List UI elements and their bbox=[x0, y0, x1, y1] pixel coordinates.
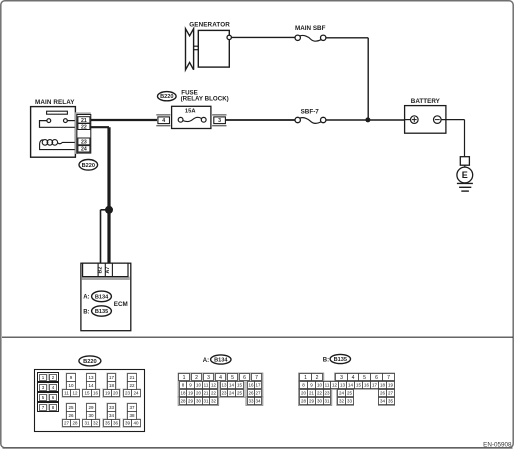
svg-text:19: 19 bbox=[105, 391, 111, 396]
svg-text:18: 18 bbox=[109, 383, 115, 388]
svg-text:29: 29 bbox=[88, 405, 94, 410]
relay pin 24 bbox=[78, 146, 90, 153]
svg-text:(RELAY BLOCK): (RELAY BLOCK) bbox=[181, 96, 229, 103]
svg-text:24: 24 bbox=[133, 391, 139, 396]
ground E bbox=[457, 157, 473, 191]
wire branch to ECM pin B2 bbox=[101, 210, 110, 263]
svg-text:27: 27 bbox=[64, 421, 70, 426]
connector view B135 bbox=[299, 373, 395, 406]
svg-text:14: 14 bbox=[348, 383, 354, 388]
svg-text:25: 25 bbox=[237, 391, 243, 396]
svg-text:25: 25 bbox=[347, 391, 353, 396]
svg-text:B134: B134 bbox=[214, 358, 228, 364]
wire generator to MAIN SBF bbox=[231, 36, 295, 38]
svg-text:4: 4 bbox=[219, 375, 222, 381]
svg-text:21: 21 bbox=[203, 391, 209, 396]
fuse MAIN SBF bbox=[295, 25, 326, 41]
relay pin 22 bbox=[78, 124, 90, 131]
svg-text:20: 20 bbox=[113, 391, 119, 396]
svg-text:18: 18 bbox=[180, 391, 186, 396]
svg-text:10: 10 bbox=[317, 383, 323, 388]
svg-text:EN-05908: EN-05908 bbox=[483, 441, 512, 448]
svg-text:11: 11 bbox=[204, 383, 209, 388]
svg-text:14: 14 bbox=[229, 383, 235, 388]
svg-text:21: 21 bbox=[129, 375, 135, 380]
svg-text:B135: B135 bbox=[95, 309, 108, 315]
ECM pin A7 bbox=[105, 267, 111, 274]
svg-text:B220: B220 bbox=[83, 359, 97, 365]
svg-text:32: 32 bbox=[211, 399, 217, 404]
svg-text:A7: A7 bbox=[105, 267, 111, 274]
generator GENERATOR bbox=[186, 21, 231, 69]
wire relay pin 22 down to ECM bbox=[90, 127, 109, 263]
connector view B220 label bbox=[79, 356, 101, 366]
fuse SBF-7 bbox=[295, 108, 326, 123]
relay contact bar bbox=[47, 111, 68, 114]
svg-text:27: 27 bbox=[255, 391, 261, 396]
svg-text:30: 30 bbox=[317, 399, 323, 404]
svg-text:27: 27 bbox=[388, 391, 394, 396]
svg-text:MAIN SBF: MAIN SBF bbox=[295, 25, 326, 32]
svg-text:16: 16 bbox=[248, 383, 254, 388]
svg-text:22: 22 bbox=[81, 125, 87, 131]
svg-text:35: 35 bbox=[105, 421, 111, 426]
svg-text:1: 1 bbox=[304, 375, 307, 381]
svg-text:A:: A: bbox=[83, 295, 89, 301]
svg-text:25: 25 bbox=[68, 405, 74, 410]
battery bbox=[405, 98, 446, 133]
ECM connector strip bbox=[82, 263, 130, 280]
svg-text:32: 32 bbox=[339, 399, 345, 404]
svg-text:E: E bbox=[462, 170, 468, 180]
svg-text:B134: B134 bbox=[95, 294, 109, 300]
svg-text:2: 2 bbox=[195, 375, 198, 381]
fuse block label bbox=[181, 90, 229, 103]
svg-text:23: 23 bbox=[324, 391, 330, 396]
svg-text:19: 19 bbox=[388, 383, 394, 388]
svg-text:20: 20 bbox=[196, 391, 202, 396]
svg-text:17: 17 bbox=[109, 375, 115, 380]
svg-text:4: 4 bbox=[352, 375, 355, 381]
svg-text:5: 5 bbox=[363, 375, 366, 381]
connector view B135 label bbox=[323, 354, 351, 363]
svg-text:10: 10 bbox=[196, 383, 202, 388]
svg-text:B135: B135 bbox=[334, 357, 347, 363]
wire relay pin 21 to fuse bbox=[91, 119, 157, 121]
svg-text:37: 37 bbox=[129, 405, 135, 410]
svg-text:17: 17 bbox=[372, 383, 378, 388]
svg-text:15A: 15A bbox=[185, 109, 196, 115]
svg-text:16: 16 bbox=[364, 383, 370, 388]
svg-text:1: 1 bbox=[183, 375, 186, 381]
svg-text:BATTERY: BATTERY bbox=[411, 98, 441, 105]
fuse 15A (relay block) bbox=[172, 106, 211, 128]
svg-text:40: 40 bbox=[133, 421, 139, 426]
relay pin 23 bbox=[78, 138, 90, 145]
svg-text:22: 22 bbox=[317, 391, 323, 396]
svg-text:6: 6 bbox=[243, 375, 246, 381]
connector view B134 label bbox=[203, 355, 231, 364]
svg-text:7: 7 bbox=[255, 375, 258, 381]
svg-text:29: 29 bbox=[309, 399, 315, 404]
separator line bbox=[2, 336, 513, 338]
connector label B220 (main relay) bbox=[79, 160, 98, 171]
connector view B220 bbox=[35, 370, 145, 432]
svg-text:B2: B2 bbox=[98, 267, 104, 274]
svg-text:A:: A: bbox=[203, 358, 209, 364]
connector label B220 (relay block) bbox=[158, 92, 177, 101]
svg-text:2: 2 bbox=[316, 375, 319, 381]
svg-text:26: 26 bbox=[68, 413, 74, 418]
relay contacts bbox=[40, 119, 78, 128]
connector view B134 bbox=[178, 373, 263, 406]
svg-text:23: 23 bbox=[81, 139, 87, 145]
svg-text:B:: B: bbox=[83, 309, 89, 315]
svg-text:GENERATOR: GENERATOR bbox=[189, 21, 230, 28]
relay coil bbox=[40, 140, 77, 150]
svg-text:28: 28 bbox=[301, 399, 307, 404]
svg-text:23: 23 bbox=[125, 391, 131, 396]
svg-text:33: 33 bbox=[248, 399, 254, 404]
svg-text:32: 32 bbox=[93, 421, 99, 426]
junction node ECM branch bbox=[105, 206, 113, 214]
svg-text:13: 13 bbox=[88, 375, 94, 380]
svg-text:34: 34 bbox=[109, 413, 115, 418]
svg-text:B220: B220 bbox=[160, 94, 173, 100]
svg-text:10: 10 bbox=[68, 383, 74, 388]
svg-text:33: 33 bbox=[347, 399, 353, 404]
svg-text:14: 14 bbox=[88, 383, 94, 388]
svg-text:34: 34 bbox=[255, 399, 261, 404]
svg-text:11: 11 bbox=[64, 391, 69, 396]
svg-text:B:: B: bbox=[323, 357, 329, 363]
wire SBF-7 to battery bbox=[326, 119, 405, 121]
fuse holder pin 3 bbox=[212, 115, 226, 126]
svg-text:B220: B220 bbox=[82, 163, 95, 169]
ECM pin B2 bbox=[98, 267, 104, 274]
svg-text:24: 24 bbox=[81, 147, 87, 153]
svg-text:4: 4 bbox=[162, 118, 165, 124]
svg-text:29: 29 bbox=[188, 399, 194, 404]
svg-text:30: 30 bbox=[88, 413, 94, 418]
svg-text:3: 3 bbox=[218, 118, 221, 124]
battery negative terminal bbox=[434, 116, 442, 124]
svg-text:3: 3 bbox=[340, 375, 343, 381]
wire fuse to SBF-7 bbox=[225, 119, 295, 121]
svg-text:ECM: ECM bbox=[114, 301, 128, 308]
svg-text:7: 7 bbox=[387, 375, 390, 381]
svg-text:39: 39 bbox=[125, 421, 131, 426]
ECM box bbox=[81, 263, 131, 331]
relay pin 21 bbox=[78, 117, 90, 124]
svg-text:24: 24 bbox=[339, 391, 345, 396]
generator output terminal bbox=[227, 35, 231, 39]
svg-text:26: 26 bbox=[380, 391, 386, 396]
svg-text:31: 31 bbox=[203, 399, 209, 404]
svg-text:18: 18 bbox=[380, 383, 386, 388]
battery positive terminal bbox=[411, 116, 419, 124]
svg-text:17: 17 bbox=[255, 383, 261, 388]
svg-text:22: 22 bbox=[211, 391, 217, 396]
svg-text:23: 23 bbox=[221, 391, 227, 396]
svg-text:3: 3 bbox=[207, 375, 210, 381]
wire battery to ground bbox=[441, 120, 464, 157]
svg-text:38: 38 bbox=[129, 413, 135, 418]
svg-text:31: 31 bbox=[84, 421, 90, 426]
wire MAIN SBF to battery feed corner bbox=[326, 38, 368, 120]
fuse holder pin 4 bbox=[156, 115, 170, 126]
svg-text:28: 28 bbox=[180, 399, 186, 404]
svg-text:20: 20 bbox=[301, 391, 307, 396]
svg-text:MAIN RELAY: MAIN RELAY bbox=[35, 99, 75, 106]
svg-text:24: 24 bbox=[229, 391, 235, 396]
svg-text:15: 15 bbox=[237, 383, 243, 388]
svg-text:13: 13 bbox=[340, 383, 346, 388]
svg-text:SBF-7: SBF-7 bbox=[301, 108, 320, 115]
svg-text:11: 11 bbox=[325, 383, 330, 388]
svg-text:34: 34 bbox=[380, 399, 386, 404]
relay MAIN RELAY bbox=[31, 99, 76, 157]
relay connector strip bbox=[75, 112, 91, 153]
svg-text:22: 22 bbox=[129, 383, 135, 388]
svg-text:15: 15 bbox=[356, 383, 362, 388]
svg-text:35: 35 bbox=[388, 399, 394, 404]
svg-text:12: 12 bbox=[72, 391, 78, 396]
document number bbox=[483, 441, 512, 448]
svg-text:28: 28 bbox=[72, 421, 78, 426]
svg-text:13: 13 bbox=[221, 383, 227, 388]
svg-text:6: 6 bbox=[375, 375, 378, 381]
svg-text:33: 33 bbox=[109, 405, 115, 410]
svg-text:12: 12 bbox=[332, 383, 338, 388]
svg-text:5: 5 bbox=[231, 375, 234, 381]
svg-text:21: 21 bbox=[309, 391, 315, 396]
ECM labels bbox=[83, 291, 128, 316]
svg-text:31: 31 bbox=[324, 399, 330, 404]
svg-text:16: 16 bbox=[93, 391, 99, 396]
svg-text:12: 12 bbox=[211, 383, 217, 388]
svg-text:30: 30 bbox=[196, 399, 202, 404]
svg-text:15: 15 bbox=[84, 391, 90, 396]
svg-text:26: 26 bbox=[248, 391, 254, 396]
junction node battery feed bbox=[365, 117, 370, 122]
svg-text:19: 19 bbox=[188, 391, 194, 396]
svg-text:36: 36 bbox=[113, 421, 119, 426]
